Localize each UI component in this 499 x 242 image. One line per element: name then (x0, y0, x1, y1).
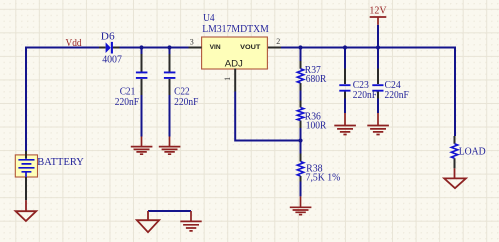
svg-text:U4: U4 (203, 12, 215, 24)
svg-text:680R: 680R (306, 73, 327, 85)
svg-text:220nF: 220nF (174, 96, 198, 108)
svg-text:220nF: 220nF (353, 89, 377, 101)
svg-text:1: 1 (223, 77, 232, 81)
svg-text:7,5K 1%: 7,5K 1% (306, 171, 341, 183)
svg-text:LOAD: LOAD (459, 145, 486, 157)
svg-text:4007: 4007 (102, 54, 122, 66)
svg-text:100R: 100R (306, 119, 327, 131)
svg-text:VIN: VIN (210, 45, 221, 51)
svg-text:220nF: 220nF (385, 89, 409, 101)
svg-text:12V: 12V (369, 4, 386, 16)
svg-text:VOUT: VOUT (240, 45, 261, 51)
svg-text:220nF: 220nF (115, 96, 139, 108)
svg-text:3: 3 (190, 37, 194, 46)
svg-text:ADJ: ADJ (225, 58, 243, 69)
svg-text:BATTERY: BATTERY (37, 156, 84, 168)
svg-text:LM317MDTXM: LM317MDTXM (202, 23, 269, 35)
svg-text:D6: D6 (101, 31, 115, 43)
svg-text:2: 2 (276, 37, 280, 46)
svg-text:Vdd: Vdd (66, 37, 83, 49)
